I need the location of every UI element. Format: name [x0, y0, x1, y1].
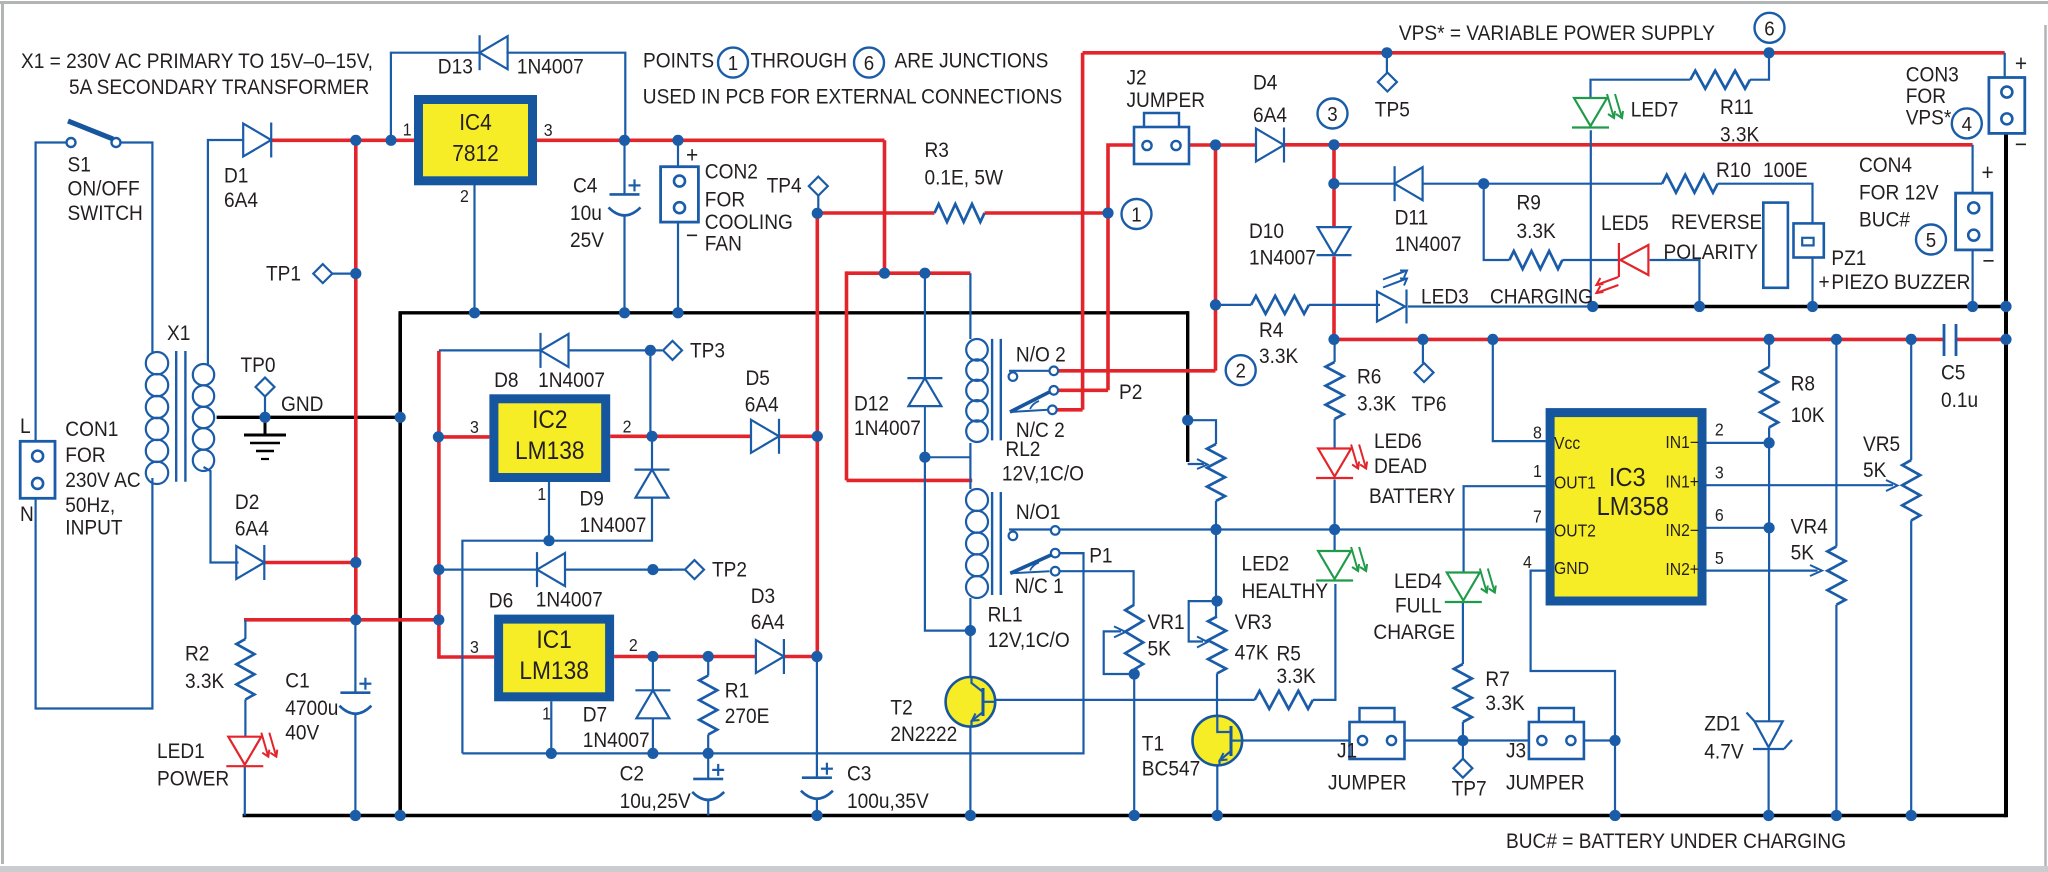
wire R5 right to LED2: [1313, 584, 1336, 700]
svg-text:N/C 1: N/C 1: [1015, 575, 1064, 598]
svg-text:3.3K: 3.3K: [185, 670, 225, 693]
wire D9 branch: [651, 436, 653, 469]
frame border: [0, 1, 2048, 4]
junction dot (1334.6,529.5): [1329, 524, 1340, 535]
svg-text:1: 1: [1131, 204, 1141, 227]
junction dot (1769,52.8): [1763, 47, 1774, 58]
svg-text:D7: D7: [583, 704, 607, 727]
svg-text:6A4: 6A4: [1253, 104, 1287, 127]
testpoint TP1: [313, 264, 332, 283]
junction dot (624.5,140.3): [619, 135, 630, 146]
junction number 5: [1916, 225, 1946, 255]
svg-text:D3: D3: [751, 585, 775, 608]
junction dot (817.3,213.3): [812, 208, 823, 219]
wire red relay top feed: [847, 271, 971, 275]
diode D6: [537, 553, 565, 586]
junction number 4: [1952, 108, 1982, 138]
svg-text:−: −: [1983, 247, 1995, 273]
capacitor C2: [693, 778, 723, 781]
wire red point1 to J2: [1108, 145, 1134, 390]
header junction circles: [718, 48, 748, 78]
wire IC4 pin2: [473, 183, 475, 313]
svg-text:GND: GND: [281, 393, 323, 416]
junction dot (1615,740.5): [1609, 735, 1620, 746]
svg-text:N/C 2: N/C 2: [1016, 419, 1065, 442]
svg-text:DEAD: DEAD: [1374, 455, 1427, 478]
wire D11 line: [1334, 183, 1395, 185]
junction number 6: [1755, 13, 1785, 43]
svg-text:D9: D9: [580, 488, 604, 511]
wire red IC2 pin3 input: [438, 435, 489, 439]
svg-text:S1: S1: [68, 154, 91, 177]
svg-text:IC2: IC2: [532, 406, 567, 434]
wire N/O2 contact: [1009, 370, 1050, 372]
svg-text:D12: D12: [854, 393, 889, 416]
wire C4 branch: [623, 140, 625, 194]
svg-text:−: −: [686, 222, 698, 248]
transformer X1 secondary coil: [193, 364, 214, 385]
junction dot (1216,529.5): [1210, 524, 1221, 535]
svg-text:D1: D1: [224, 165, 248, 188]
svg-text:CON4: CON4: [1859, 154, 1912, 177]
testpoint TP7: [1453, 759, 1472, 778]
wire IC3 Vcc branch: [1493, 339, 1546, 441]
capacitor C3: [802, 776, 832, 779]
wire red D6/D8 riser: [437, 351, 441, 659]
opamp IC3: [1550, 413, 1702, 601]
wire red sense vertical TP4-D5-D3: [815, 213, 819, 656]
junction dot (924.9,273.2): [919, 268, 930, 279]
diode D12: [908, 378, 941, 406]
svg-text:JUMPER: JUMPER: [1127, 89, 1206, 112]
wire T2 emitter: [969, 726, 971, 815]
svg-text:3: 3: [1327, 103, 1337, 126]
junction dot (708.2,656.5): [703, 651, 714, 662]
junction dot (2006,306.5): [2000, 301, 2011, 312]
svg-text:10K: 10K: [1791, 404, 1826, 427]
junction dot (474.5,312.8): [469, 307, 480, 318]
svg-text:N/O1: N/O1: [1016, 501, 1061, 524]
svg-text:BUC# = BATTERY UNDER CHARGING: BUC# = BATTERY UNDER CHARGING: [1506, 830, 1846, 853]
wire T1 emitter: [1216, 766, 1218, 816]
wire VR5 verticals: [1910, 339, 1912, 460]
testpoint TP0: [256, 378, 275, 397]
junction dot (355.4,815.5): [350, 810, 361, 821]
junction number 2: [1226, 355, 1256, 385]
wire J1 to J3 line: [1405, 739, 1529, 741]
potentiometer VR4: [1827, 547, 1845, 605]
wire red IC1 pin2 output to D3: [614, 655, 756, 659]
potentiometer VR1: [1125, 605, 1143, 670]
svg-text:3.3K: 3.3K: [1720, 124, 1760, 147]
junction dot (970.4,815.5): [965, 810, 976, 821]
svg-text:OUT1: OUT1: [1554, 473, 1596, 493]
wire red CON4 drop: [1971, 145, 1973, 193]
svg-text:1N4007: 1N4007: [580, 514, 647, 537]
potentiometer VR5: [1902, 460, 1920, 520]
svg-text:LM138: LM138: [519, 657, 589, 685]
svg-text:LED7: LED7: [1631, 99, 1679, 122]
wire black buzzer rail: [1593, 305, 2006, 308]
junction dot (1812.5,306.5): [1807, 301, 1818, 312]
junction dot (1769.1,339.4): [1764, 334, 1775, 345]
svg-text:VPS*: VPS*: [1906, 107, 1952, 130]
svg-text:6: 6: [864, 52, 874, 75]
junction dot (1615,815.5): [1609, 810, 1620, 821]
svg-text:3.3K: 3.3K: [1259, 345, 1299, 368]
junction dot (1187.7,420.2): [1182, 415, 1193, 426]
svg-text:BATTERY: BATTERY: [1369, 485, 1455, 508]
svg-text:CON1: CON1: [65, 418, 118, 441]
svg-text:J2: J2: [1127, 67, 1147, 90]
junction dot (1911.2,815.5): [1906, 810, 1917, 821]
svg-text:8: 8: [1533, 423, 1542, 443]
wire C2 branch: [707, 753, 709, 779]
svg-text:C5: C5: [1941, 362, 1965, 385]
svg-text:HEALTHY: HEALTHY: [1242, 580, 1329, 603]
junction dot (1134.2,815.5): [1129, 810, 1140, 821]
wire red IC1 pin3 input: [439, 655, 494, 659]
svg-text:T2: T2: [890, 697, 912, 720]
wire R4 line: [1216, 304, 1252, 306]
testpoint TP3: [663, 341, 682, 360]
wire secondary bottom to D2: [204, 467, 239, 563]
junction dot (817,815.5): [811, 810, 822, 821]
junction dot (1333.9,183.7): [1328, 178, 1339, 189]
svg-text:VR3: VR3: [1235, 611, 1272, 634]
svg-text:100u,35V: 100u,35V: [847, 790, 929, 813]
svg-text:230V AC: 230V AC: [65, 469, 140, 492]
junction dot (924.9,457.2): [919, 452, 930, 463]
svg-text:1N4007: 1N4007: [517, 56, 584, 79]
wire red J2 to D4: [1189, 143, 1257, 147]
diode D2: [236, 546, 264, 579]
svg-text:6A4: 6A4: [745, 394, 779, 417]
wire R1 branch: [707, 657, 709, 676]
junction dot (1836.4,339.4): [1831, 334, 1842, 345]
wire LED1 to ground bus: [244, 764, 246, 815]
wire VR1 bottom: [1133, 669, 1135, 815]
svg-text:2: 2: [623, 417, 632, 437]
junction dot (265,417.3): [259, 412, 270, 423]
svg-text:1: 1: [1533, 461, 1542, 481]
wire red CON3 drop: [2004, 53, 2006, 78]
svg-text:+: +: [686, 141, 698, 167]
wire red D4 to point3 and charging bus: [1284, 143, 1973, 147]
svg-text:D10: D10: [1249, 220, 1284, 243]
junction dot (652.9,569.6): [647, 564, 658, 575]
relay RL1 contacts: [1051, 526, 1060, 535]
transistor T2: [946, 677, 996, 727]
LED1: [228, 737, 261, 765]
wire D7 branch: [652, 657, 654, 691]
svg-text:X1: X1: [167, 322, 190, 345]
svg-text:+: +: [1982, 159, 1994, 185]
wire red D3 to sense node: [784, 655, 817, 659]
junction dot (1217.3,815.5): [1212, 810, 1223, 821]
svg-text:6: 6: [1715, 505, 1724, 525]
wire VR2 wiper arrow: [1188, 463, 1204, 465]
junction dot (355.8,140.3): [350, 135, 361, 146]
svg-text:3: 3: [1715, 463, 1724, 483]
junction dot (1215.5,304.9): [1210, 299, 1221, 310]
wire R8 vertical: [1768, 339, 1770, 366]
wire IC3 pin6 line: [1707, 527, 1770, 529]
svg-text:D13: D13: [438, 56, 473, 79]
regulator IC4: [419, 100, 533, 181]
junction dot (624.5,312.8): [619, 307, 630, 318]
junction dot (652.9,656.5): [647, 651, 658, 662]
wire red D10 branch: [1332, 145, 1336, 227]
svg-text:LED4: LED4: [1394, 570, 1442, 593]
svg-text:X1 = 230V AC PRIMARY TO 15V–0–: X1 = 230V AC PRIMARY TO 15V–0–15V,: [21, 50, 373, 73]
zener ZD1: [1755, 721, 1783, 747]
svg-text:D2: D2: [235, 491, 259, 514]
svg-text:THROUGH: THROUGH: [751, 50, 848, 73]
junction dot (355.8,619.8): [350, 614, 361, 625]
svg-text:3.3K: 3.3K: [1357, 393, 1397, 416]
diode D10: [1318, 227, 1351, 255]
wire D13 loop: [391, 53, 480, 139]
svg-text:D5: D5: [746, 367, 770, 390]
wire R7 to jumper line: [1462, 722, 1464, 741]
svg-text:TP7: TP7: [1452, 778, 1487, 801]
relay RL1 coil: [966, 489, 988, 511]
svg-text:C4: C4: [573, 175, 597, 198]
svg-text:2: 2: [1715, 420, 1724, 440]
svg-text:IC4: IC4: [459, 109, 492, 135]
wire N/C1 to VR1: [1059, 571, 1133, 605]
junction dot (652,436.3): [646, 431, 657, 442]
junction dot (1483.7,183.7): [1478, 178, 1489, 189]
junction dot (438.9,569.6): [433, 564, 444, 575]
wire R6 LED6 LED2 chain: [1333, 339, 1335, 362]
svg-text:ZD1: ZD1: [1704, 713, 1740, 736]
svg-text:1N4007: 1N4007: [538, 369, 605, 392]
junction dot (678,312.8): [672, 307, 683, 318]
wire N/O1 line to IC3 pin7: [1009, 528, 1546, 530]
wire black ground bus bottom: [243, 814, 2006, 818]
svg-text:3: 3: [470, 418, 479, 438]
svg-text:25V: 25V: [570, 229, 605, 252]
svg-text:CHARGE: CHARGE: [1373, 621, 1455, 644]
svg-text:IN1−: IN1−: [1665, 432, 1699, 452]
wire ZD1 to ground bus: [1767, 749, 1769, 816]
wire RL1 coil to T2 collector: [969, 598, 971, 677]
junction dot (1699.4,306.5): [1694, 301, 1705, 312]
svg-text:C1: C1: [285, 670, 309, 693]
svg-text:TP3: TP3: [690, 340, 725, 363]
relay RL2 contacts: [1050, 367, 1059, 376]
junction dot (1215.5,145): [1210, 139, 1221, 150]
wire R10 to piezo: [1718, 184, 1813, 224]
wire IC1 pin1: [550, 701, 552, 753]
svg-text:5K: 5K: [1791, 542, 1815, 565]
wire IC3 pin2 to R8: [1707, 442, 1770, 444]
junction dot (1462.9,740.5): [1457, 735, 1468, 746]
junction dot (1972.6,306.5): [1967, 301, 1978, 312]
svg-text:R1: R1: [725, 680, 749, 703]
wire T1 collector to J1: [1243, 739, 1350, 741]
wire R10 line: [1484, 183, 1662, 185]
svg-text:−: −: [2015, 131, 2027, 157]
wire red R3 to point 1: [985, 211, 1109, 215]
svg-text:R7: R7: [1485, 668, 1509, 691]
svg-text:3.3K: 3.3K: [1277, 665, 1317, 688]
svg-text:VPS* = VARIABLE POWER SUPPLY: VPS* = VARIABLE POWER SUPPLY: [1399, 22, 1715, 45]
diode D11: [1395, 167, 1423, 200]
resistor R2: [236, 639, 254, 700]
wire TP5 stem: [1386, 53, 1388, 73]
wire black left vertical: [398, 313, 402, 817]
resistor R3: [935, 204, 985, 222]
svg-text:+: +: [2015, 50, 2027, 76]
svg-text:VR1: VR1: [1148, 611, 1185, 634]
svg-text:VR4: VR4: [1791, 516, 1828, 539]
connector CON1: [20, 441, 55, 498]
svg-text:LED3: LED3: [1421, 286, 1469, 309]
wire LED4 to R7: [1462, 602, 1464, 664]
wire IC2 pin1: [548, 482, 550, 541]
junction dot (549,540.7): [543, 535, 554, 546]
connector CON4: [1956, 193, 1992, 250]
wire red IC2 pin2 output to D5: [610, 434, 751, 438]
regulator IC1: [499, 619, 610, 697]
relay RL2 coil: [966, 339, 988, 361]
LED4: [1447, 573, 1480, 601]
svg-text:CHARGING: CHARGING: [1490, 286, 1593, 309]
svg-text:2: 2: [460, 186, 469, 206]
resistor R1: [699, 676, 717, 735]
junction dot (652.9,753.4): [647, 748, 658, 759]
wire TP4 stem: [817, 196, 819, 214]
svg-text:6A4: 6A4: [224, 189, 258, 212]
jumper J1: [1350, 722, 1405, 759]
junction dot (438.4,436.9): [433, 431, 444, 442]
wire LED3 to buzzer rail: [1408, 305, 1593, 307]
junction dot (1911.2,339.4): [1906, 334, 1917, 345]
svg-text:100E: 100E: [1763, 159, 1808, 182]
connector CON2: [661, 167, 699, 222]
wire VR2 bottom to VR3: [1215, 501, 1217, 617]
svg-text:6A4: 6A4: [751, 611, 785, 634]
svg-text:10u,25V: 10u,25V: [620, 790, 692, 813]
wire red IC4 output rail: [536, 139, 885, 143]
wire red relay bottom feed: [847, 479, 973, 483]
svg-text:FULL: FULL: [1395, 595, 1442, 618]
wire IC3 pin4 GND route: [1531, 571, 1615, 816]
svg-text:5K: 5K: [1148, 638, 1172, 661]
svg-text:1N4007: 1N4007: [854, 417, 921, 440]
testpoint TP2: [685, 560, 704, 579]
connector CON3: [1989, 78, 2025, 134]
svg-text:R3: R3: [925, 139, 949, 162]
diode D3: [756, 640, 784, 673]
wire relay RL2 coil stem: [969, 273, 971, 339]
svg-text:LM138: LM138: [515, 437, 585, 465]
capacitor C5: [1943, 324, 1946, 356]
svg-text:P2: P2: [1119, 381, 1142, 404]
LED2: [1318, 551, 1351, 579]
capacitor C1: [340, 691, 370, 694]
svg-text:TP6: TP6: [1412, 393, 1447, 416]
svg-text:INPUT: INPUT: [65, 517, 122, 540]
diode D4: [1256, 129, 1284, 162]
wire P1 common: [1059, 552, 1083, 554]
wire TP1 stem: [332, 273, 356, 275]
svg-text:ARE JUNCTIONS: ARE JUNCTIONS: [895, 50, 1049, 73]
wire red D1 to IC4 input: [271, 139, 414, 143]
wire R11 right to point6: [1750, 53, 1769, 80]
wire piezo to buzzer rail: [1811, 258, 1813, 307]
svg-text:USED IN PCB FOR EXTERNAL CON: USED IN PCB FOR EXTERNAL CONNECTIONS: [643, 86, 1062, 109]
junction dot (708.2,753.4): [703, 748, 714, 759]
wire S1 to CON1 live: [36, 143, 68, 442]
wire red C5 to battery negative: [1956, 338, 2006, 342]
svg-text:1: 1: [537, 484, 546, 504]
junction dot (650.4,350.4): [645, 345, 656, 356]
resistor R5: [1255, 691, 1313, 709]
svg-text:2: 2: [629, 635, 638, 655]
svg-text:12V,1C/O: 12V,1C/O: [1002, 463, 1084, 486]
wire red relay common to point1 riser: [1057, 388, 1108, 392]
junction dot (817.3,436.3): [812, 431, 823, 442]
junction number 1: [1122, 199, 1152, 229]
svg-text:1: 1: [403, 120, 412, 140]
testpoint TP4: [809, 177, 828, 196]
wire TP2 stem: [653, 568, 685, 570]
wire TP3 node to IC2 pin2: [649, 350, 651, 436]
wire TP0 stem: [264, 397, 266, 418]
wire red N/O2 contact line: [1057, 369, 1216, 373]
wire C1 branch: [354, 620, 356, 693]
junction dot (355.8,273.6): [350, 268, 361, 279]
wire D8 line: [439, 349, 541, 351]
svg-text:FOR: FOR: [1906, 85, 1946, 108]
wire D11 to R9: [1484, 184, 1510, 260]
wire R11 to LED7: [1591, 80, 1691, 98]
svg-text:50Hz,: 50Hz,: [65, 494, 115, 517]
wire TP6 stem: [1422, 339, 1424, 363]
svg-text:3: 3: [470, 637, 479, 657]
svg-text:6A4: 6A4: [235, 518, 269, 541]
wire R9 to LED5: [1562, 259, 1620, 261]
junction dot (551.3,753.4): [546, 748, 557, 759]
wire VR4 verticals: [1835, 339, 1837, 546]
svg-text:T1: T1: [1142, 733, 1164, 756]
svg-text:TP1: TP1: [266, 263, 301, 286]
junction dot (1769.1,442.9): [1764, 437, 1775, 448]
wire CON2 branch: [677, 140, 679, 166]
junction dot (400.2,815.5): [395, 810, 406, 821]
junction number 3: [1318, 99, 1348, 129]
svg-text:POWER: POWER: [157, 768, 229, 791]
svg-text:4.7V: 4.7V: [1704, 741, 1744, 764]
wire red N/C2 to VPS riser: [1056, 408, 1083, 412]
resistor R7: [1454, 664, 1472, 722]
svg-text:POLARITY: POLARITY: [1664, 241, 1758, 264]
svg-text:D4: D4: [1253, 72, 1277, 95]
svg-text:LED1: LED1: [157, 740, 205, 763]
svg-text:IN2−: IN2−: [1665, 520, 1699, 540]
svg-text:5K: 5K: [1863, 459, 1887, 482]
wire D12 branch: [924, 273, 926, 378]
svg-text:R6: R6: [1357, 366, 1381, 389]
svg-text:LED6: LED6: [1374, 430, 1422, 453]
svg-text:5: 5: [1926, 229, 1936, 252]
junction dot (355.8,562.5): [350, 557, 361, 568]
svg-text:D8: D8: [494, 369, 518, 392]
